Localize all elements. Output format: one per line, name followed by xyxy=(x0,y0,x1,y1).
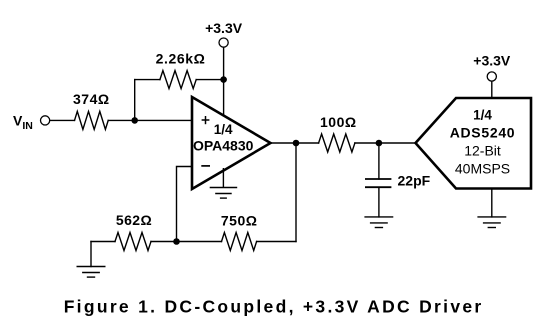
wire xyxy=(491,81,493,98)
wire xyxy=(257,241,296,243)
wire xyxy=(223,47,225,115)
svg-text:ADS5240: ADS5240 xyxy=(450,124,516,140)
ground (left) xyxy=(77,266,105,268)
junction xyxy=(293,140,300,147)
resistor 750&#937; xyxy=(222,233,257,251)
svg-text:1/4: 1/4 xyxy=(214,122,233,137)
op-amp U1 OPA4830 xyxy=(192,97,271,189)
ADC U2 ADS5240 xyxy=(416,98,532,189)
svg-text:100Ω: 100Ω xyxy=(320,114,357,130)
power terminal +3.3V (right) xyxy=(487,72,496,81)
svg-text:22pF: 22pF xyxy=(398,173,431,189)
resistor 100&#937; xyxy=(319,134,355,152)
capacitor 22pF xyxy=(366,179,391,187)
wire xyxy=(134,80,136,121)
wire xyxy=(91,241,115,243)
svg-text:OPA4830: OPA4830 xyxy=(193,137,254,153)
svg-text:VIN: VIN xyxy=(13,112,33,132)
wire xyxy=(108,119,192,121)
svg-text:40MSPS: 40MSPS xyxy=(455,161,510,177)
wire xyxy=(355,142,416,144)
junction xyxy=(220,76,227,83)
plus input symbol xyxy=(202,116,210,124)
power terminal +3.3V (left) xyxy=(219,38,228,47)
resistor 562&#937; xyxy=(115,233,151,251)
wire xyxy=(378,187,380,217)
wire (op-amp ground stub) xyxy=(222,168,224,188)
wire xyxy=(135,79,160,81)
junction xyxy=(173,238,180,245)
wire xyxy=(295,143,297,242)
ground (below capacitor) xyxy=(365,216,393,218)
svg-text:+3.3V: +3.3V xyxy=(205,20,243,36)
svg-text:Figure 1. DC-Coupled, +3.3V AD: Figure 1. DC-Coupled, +3.3V ADC Driver xyxy=(64,296,484,316)
svg-text:+3.3V: +3.3V xyxy=(473,53,511,69)
resistor 2.26k&#937; xyxy=(160,71,196,89)
minus input symbol xyxy=(201,165,210,167)
svg-text:750Ω: 750Ω xyxy=(221,212,258,228)
resistor 374&#937; xyxy=(75,111,109,129)
wire xyxy=(378,143,380,179)
wire xyxy=(50,119,75,121)
wire xyxy=(196,79,223,81)
wire xyxy=(177,167,193,242)
ground (op-amp) xyxy=(210,188,238,199)
svg-text:562Ω: 562Ω xyxy=(116,212,152,228)
svg-text:2.26kΩ: 2.26kΩ xyxy=(156,50,206,66)
svg-text:1/4: 1/4 xyxy=(473,108,492,123)
svg-text:12-Bit: 12-Bit xyxy=(464,142,501,158)
wire xyxy=(271,142,319,144)
ground (below ADS5240) xyxy=(478,216,506,218)
wire xyxy=(151,241,222,243)
wire xyxy=(90,242,92,267)
wire xyxy=(491,189,493,217)
svg-text:374Ω: 374Ω xyxy=(73,91,110,107)
input terminal VIN xyxy=(41,116,50,125)
junction xyxy=(376,140,383,147)
junction xyxy=(131,117,138,124)
